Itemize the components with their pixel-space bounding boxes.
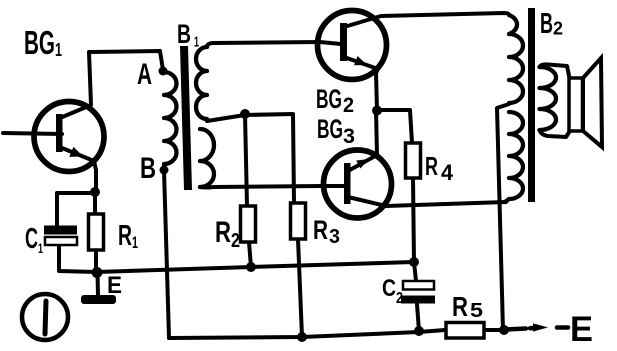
svg-text:1: 1 [194, 34, 199, 51]
svg-text:R: R [452, 291, 468, 322]
svg-text:1: 1 [55, 40, 62, 60]
svg-text:BG: BG [317, 114, 343, 144]
svg-text:2: 2 [231, 230, 240, 252]
svg-text:C: C [25, 223, 38, 255]
svg-text:BG: BG [24, 24, 55, 61]
svg-text:1: 1 [132, 233, 138, 252]
svg-text:2: 2 [553, 19, 563, 39]
svg-text:E: E [570, 310, 593, 349]
svg-text:E: E [107, 272, 122, 299]
svg-text:3: 3 [329, 226, 340, 248]
svg-text:BG: BG [316, 84, 342, 114]
svg-text:5: 5 [470, 300, 483, 322]
svg-text:B: B [177, 19, 191, 49]
svg-text:B: B [540, 8, 553, 40]
svg-text:3: 3 [343, 125, 355, 148]
svg-text:B: B [140, 152, 156, 185]
svg-text:C: C [382, 275, 396, 302]
svg-text:2: 2 [343, 94, 354, 117]
svg-text:R: R [215, 216, 231, 249]
svg-text:A: A [137, 58, 152, 91]
svg-text:R: R [313, 215, 328, 245]
svg-text:R: R [425, 151, 438, 181]
svg-text:R: R [118, 220, 132, 252]
svg-text:1: 1 [38, 240, 43, 256]
svg-text:4: 4 [441, 160, 454, 185]
svg-text:2: 2 [396, 290, 403, 307]
